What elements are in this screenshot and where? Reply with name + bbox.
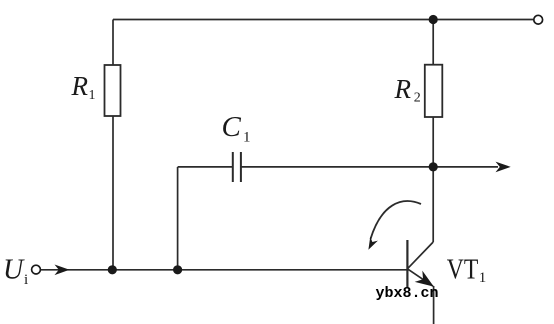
svg-text:i: i	[24, 272, 28, 288]
curved arrow (rotation indicator)	[371, 201, 422, 239]
wire R2 top leg	[432, 20, 434, 65]
node input terminal circle	[32, 265, 41, 274]
node output terminal circle top right	[534, 15, 543, 24]
junction dot C1 output / collector	[429, 162, 438, 171]
svg-text:1: 1	[89, 88, 96, 103]
wire top rail	[113, 19, 534, 21]
wire C1 left lead	[178, 166, 233, 168]
svg-text:C: C	[222, 111, 242, 143]
input arrow on wire	[55, 265, 70, 276]
wire R1 top leg	[112, 20, 114, 66]
wire C1 right lead to output arrow	[241, 166, 498, 168]
svg-text:VT: VT	[447, 254, 479, 285]
output arrowhead right of C1	[496, 162, 511, 173]
svg-text:ybx8.cn: ybx8.cn	[376, 285, 439, 302]
wire bottom rail (base line)	[41, 269, 408, 271]
transistor VT1 base bar	[406, 240, 408, 289]
wire R1 bottom leg	[112, 116, 114, 270]
wire C1 left leg	[177, 167, 179, 270]
resistor R2	[425, 65, 443, 117]
svg-text:U: U	[3, 255, 25, 286]
capacitor C1	[233, 152, 241, 182]
svg-text:1: 1	[243, 129, 251, 145]
junction dot bottom rail / C1 leg	[173, 265, 182, 274]
svg-text:2: 2	[414, 90, 421, 105]
wire emitter diagonal	[407, 269, 433, 286]
wire R2 bottom leg	[432, 117, 434, 242]
wire collector diagonal	[407, 242, 433, 269]
svg-text:R: R	[71, 71, 89, 101]
curved arrow head	[365, 237, 378, 252]
svg-text:1: 1	[479, 270, 487, 286]
junction dot bottom rail / R1	[108, 265, 117, 274]
svg-text:R: R	[394, 74, 412, 104]
transistor VT1 emitter arrowhead	[415, 271, 438, 293]
junction dot top rail / R2	[429, 15, 438, 24]
wire emitter bottom leg	[433, 286, 435, 324]
resistor R1	[105, 65, 121, 116]
